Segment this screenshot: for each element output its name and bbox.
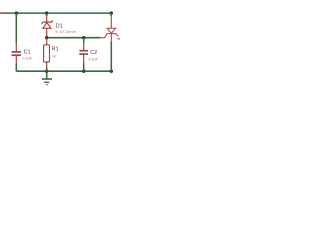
wire SCR gate lead	[100, 37, 105, 39]
svg-text:0.1uF: 0.1uF	[23, 56, 33, 60]
thyristor SCR anode lead	[110, 13, 112, 28]
capacitor C2	[79, 42, 88, 63]
wire C2 upper vertical	[83, 38, 85, 43]
node junction SCR/bottom	[110, 70, 113, 73]
wire SCR cathode vertical	[110, 42, 112, 71]
node junction D1/R1/middle	[45, 36, 48, 39]
wire middle rail	[47, 37, 100, 39]
value label fragment at right edge	[118, 38, 121, 40]
wire C1 upper vertical	[15, 13, 17, 43]
node junction C1/top	[15, 11, 18, 14]
svg-text:D1: D1	[56, 23, 63, 29]
wire red stub top-left	[0, 12, 5, 14]
wire top rail	[5, 12, 113, 14]
node junction C2/middle	[82, 36, 85, 39]
thyristor SCR triangle and cathode bar	[105, 28, 119, 42]
wire bottom rail	[16, 70, 112, 72]
wire C2 lower vertical	[83, 63, 85, 71]
ground	[42, 71, 52, 85]
node junction R1/bottom	[45, 70, 48, 73]
wire C1 lower vertical	[15, 64, 17, 71]
diode D1 zener	[42, 13, 53, 38]
node junction C2/bottom	[82, 70, 85, 73]
svg-text:C1: C1	[24, 50, 31, 56]
svg-text:9.1V Zener: 9.1V Zener	[55, 30, 77, 34]
svg-text:C2: C2	[90, 50, 97, 56]
node junction D1/top	[45, 11, 48, 14]
svg-text:0.1uF: 0.1uF	[88, 57, 98, 61]
resistor R1	[44, 38, 50, 71]
svg-text:1k: 1k	[52, 54, 56, 58]
node junction SCR/top	[110, 11, 113, 14]
capacitor C1	[12, 42, 22, 64]
svg-text:R1: R1	[52, 46, 59, 52]
